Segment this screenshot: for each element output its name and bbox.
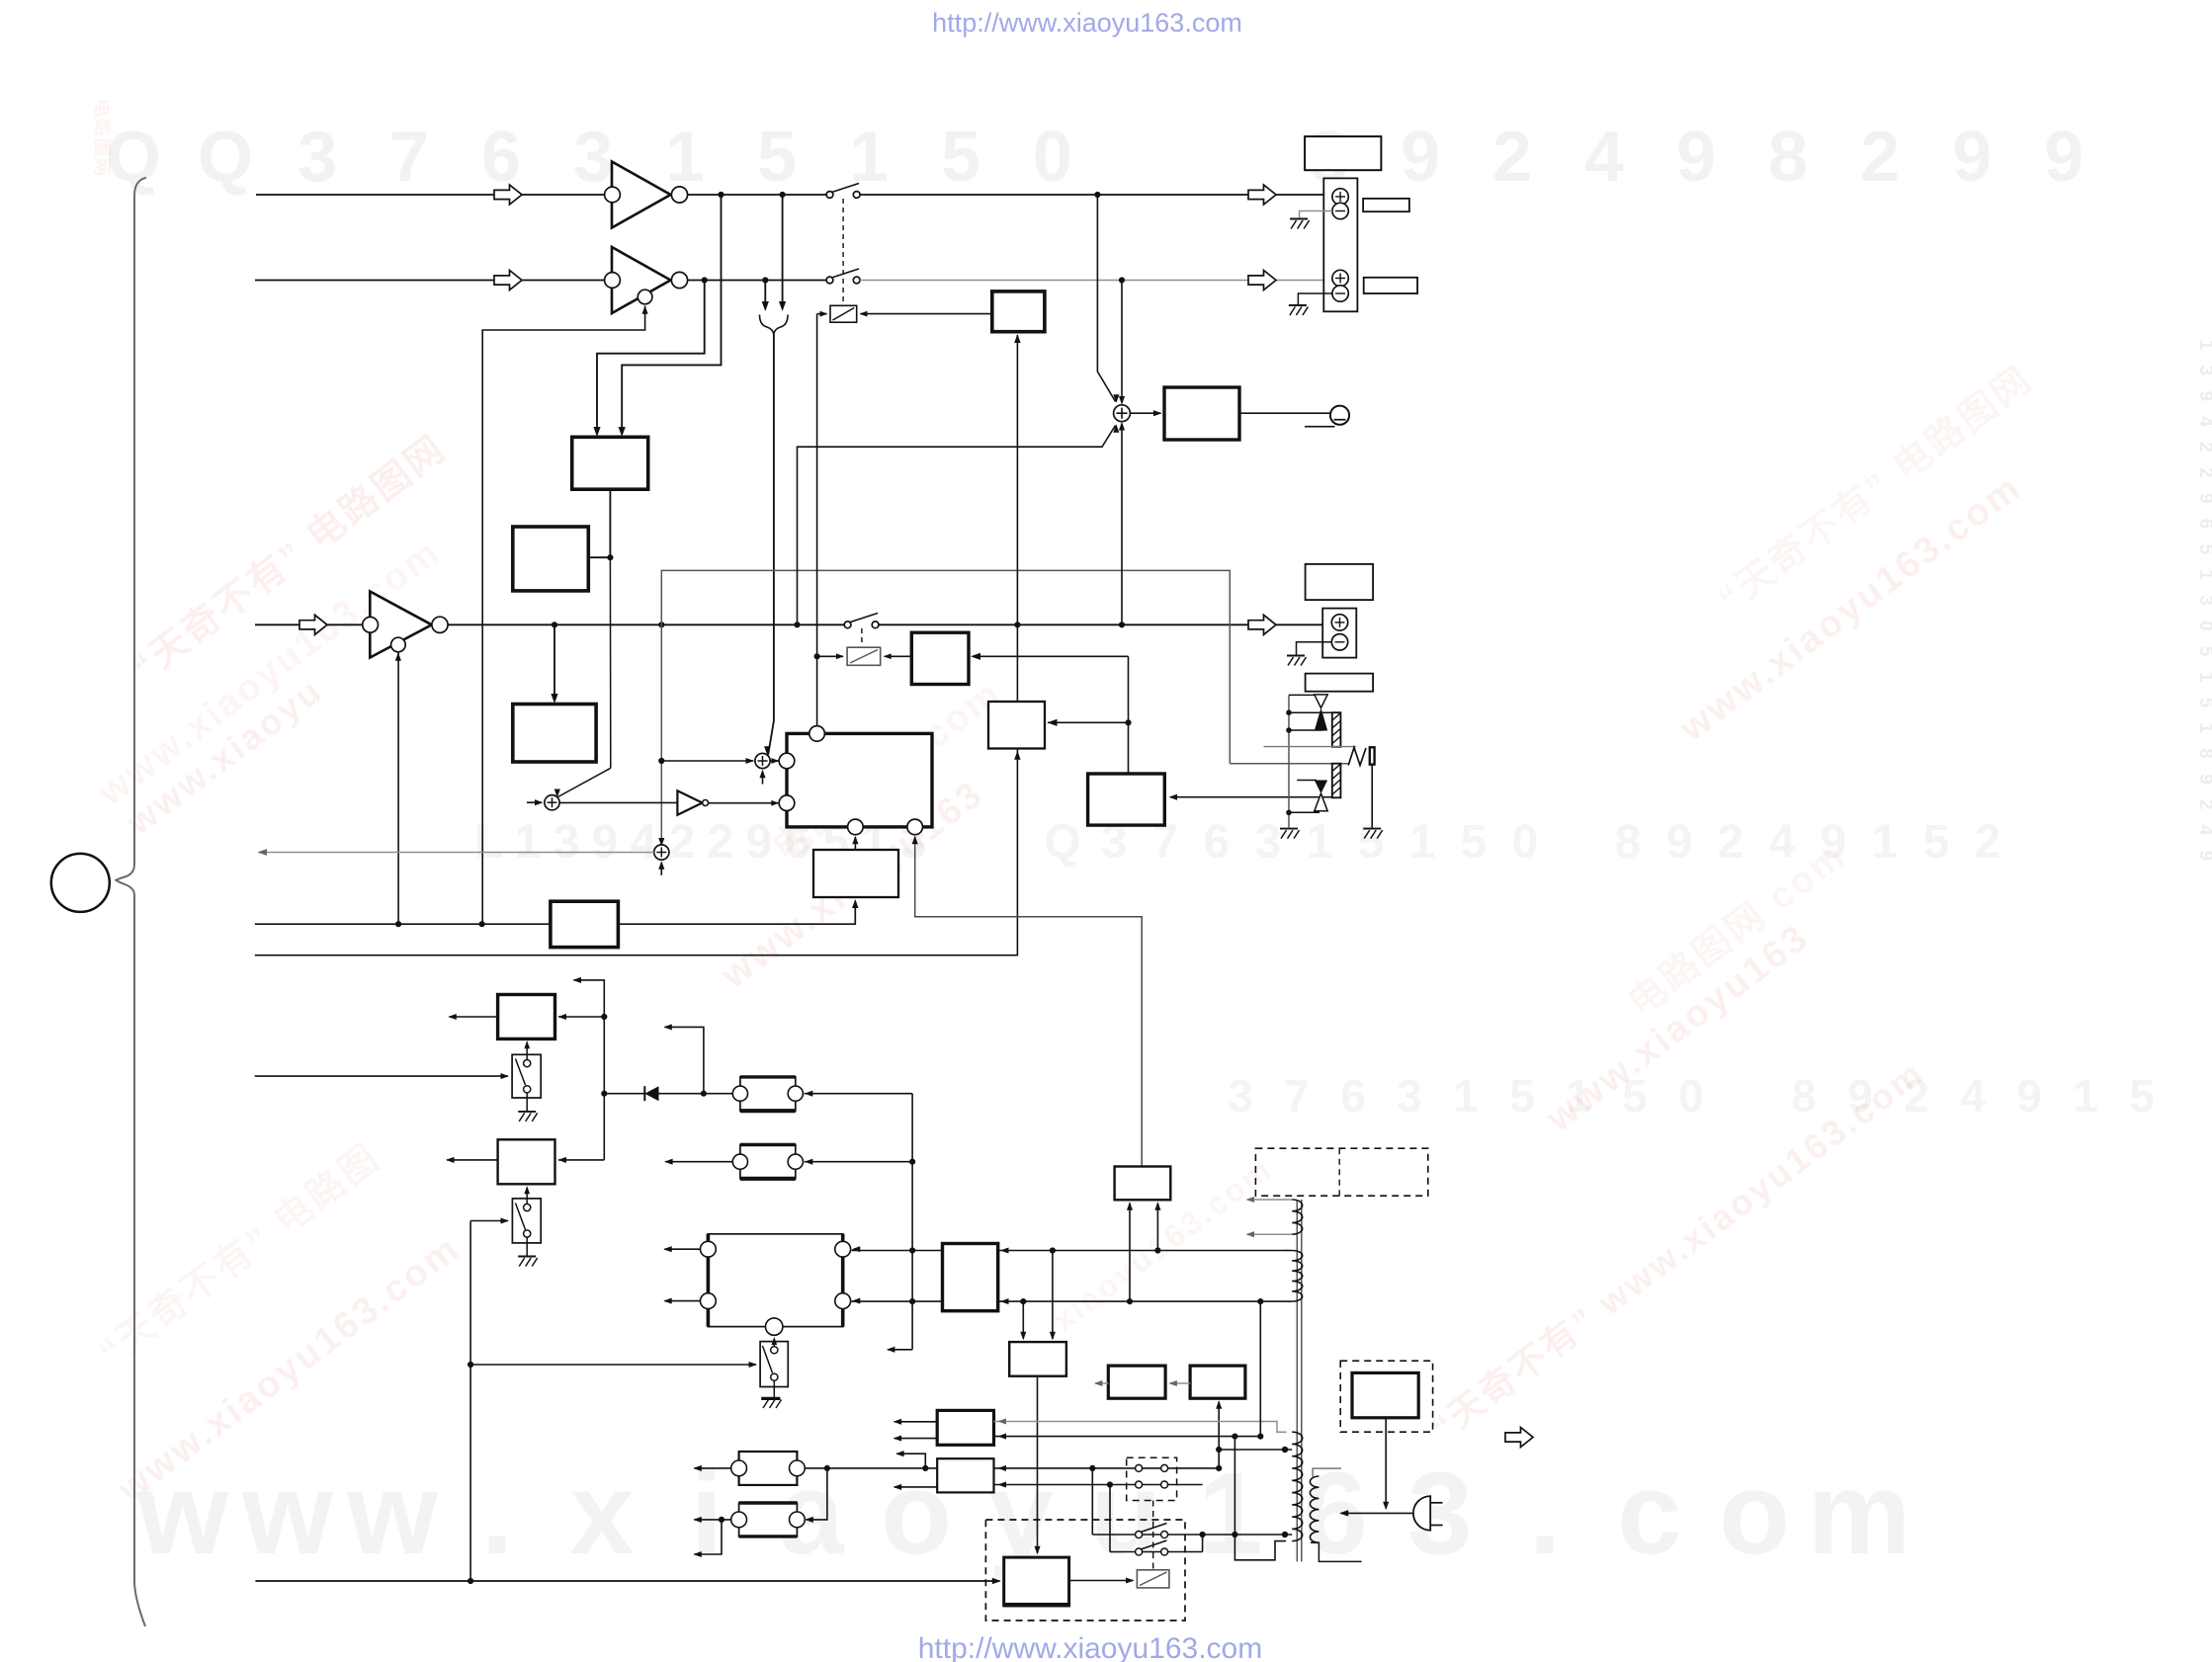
wire V2 riser <box>255 335 1018 956</box>
wire amp3 feedback <box>397 653 399 925</box>
terminal R minus <box>1332 286 1348 301</box>
arrow into FF top-left <box>771 758 779 764</box>
junction line3-hp <box>794 622 800 627</box>
dashed switch box <box>1127 1457 1177 1500</box>
junction P2 feed left <box>1020 1298 1026 1304</box>
lever swA <box>1141 1524 1167 1533</box>
wire P1 feed left <box>1129 1204 1131 1302</box>
arrow Q1 out <box>1094 1380 1103 1386</box>
block arrow speaker R <box>1248 271 1276 291</box>
junction coil-1467 <box>1282 1447 1288 1453</box>
arrow H4 out <box>693 1517 702 1523</box>
tape head H1 block <box>740 1077 796 1111</box>
svg-text:Q: Q <box>1044 816 1080 869</box>
A2 feedback circle <box>638 290 652 304</box>
junction line2-brace <box>762 277 768 283</box>
ground R <box>1289 304 1307 306</box>
contact swB2 <box>1161 1548 1168 1555</box>
arrow into R2 upper <box>998 1465 1007 1471</box>
contact swA2 <box>1161 1532 1168 1538</box>
terminal R plus <box>1332 270 1348 286</box>
A2 output circle <box>671 272 687 288</box>
AC plug <box>1413 1496 1430 1531</box>
block box A <box>572 437 648 489</box>
primary coil <box>1292 1432 1303 1540</box>
S2 plus sign <box>660 848 662 858</box>
wire boxI out <box>450 1016 498 1018</box>
svg-text:9: 9 <box>1676 118 1716 197</box>
arrow into P1 right <box>1154 1202 1160 1210</box>
H1 left circle <box>732 1086 747 1101</box>
junction head1a <box>1286 709 1292 715</box>
arrow SWI to boxI <box>524 1040 530 1048</box>
dashed link RY3-contacts <box>1152 1501 1154 1570</box>
block box R2 <box>937 1458 993 1492</box>
big left parenthesis bracket <box>116 178 146 1626</box>
svg-text:5: 5 <box>1923 816 1950 869</box>
wire line2 to boxA <box>597 281 705 435</box>
arrow into boxK top <box>1000 1247 1009 1253</box>
wire FF2 drop gray <box>915 837 1142 1167</box>
wire R1 in upper (gray) <box>994 1422 1287 1433</box>
switch SWI box <box>512 1054 541 1098</box>
dashed box T <box>1340 1361 1432 1432</box>
wire swrowB <box>1110 1551 1203 1553</box>
wire Q2 feed <box>1218 1402 1220 1468</box>
arrow into SWJ <box>501 1217 510 1223</box>
arrow into P2 left <box>1020 1332 1026 1341</box>
arrow hp diag2 <box>1113 424 1119 433</box>
svg-text:3: 3 <box>1228 1070 1253 1122</box>
svg-text:1: 1 <box>1307 816 1333 869</box>
svg-text:http://www.xiaoyu163.com: http://www.xiaoyu163.com <box>932 8 1242 38</box>
amplifier A2 <box>612 247 671 313</box>
arrow S1 stub <box>759 770 765 779</box>
wire primary tap2 stub <box>1285 1534 1292 1536</box>
A3 output circle <box>432 617 448 632</box>
wire bighead BL out <box>664 1300 700 1302</box>
ground SWJ <box>518 1256 536 1258</box>
wire HP sum to amp <box>1130 412 1160 414</box>
arrow hp bottom <box>1119 422 1125 431</box>
wire damper to ground <box>1371 765 1373 828</box>
secondary coil right <box>1310 1476 1319 1542</box>
block box D <box>551 901 619 947</box>
wire line2 to speaker (gray) <box>860 280 1332 282</box>
plug prong 2 <box>1430 1525 1442 1527</box>
junction rowA-1249 <box>1232 1532 1237 1537</box>
bighead circle BR <box>835 1293 851 1309</box>
wire primary tap1 stub <box>1285 1449 1292 1451</box>
wire P2 drop <box>1037 1376 1039 1553</box>
jack minus sign <box>1334 419 1346 421</box>
svg-text:5: 5 <box>757 118 797 197</box>
junction riser-boxF <box>1125 719 1131 725</box>
arrow into merge left <box>762 301 769 311</box>
arrow into merge right <box>779 301 786 311</box>
block box I <box>498 995 555 1039</box>
block box P1 <box>1115 1167 1171 1201</box>
arrow into boxS top <box>1034 1546 1040 1555</box>
wire R1 out lower <box>894 1438 937 1440</box>
arrow sec-top tap2 <box>1246 1231 1255 1237</box>
wire bighead TL out <box>664 1248 700 1250</box>
wire H1 feed <box>911 1094 913 1350</box>
wire boxG riser <box>1128 656 1130 774</box>
wire SWI ground stem <box>526 1093 528 1111</box>
junction line2-boxA <box>702 277 708 283</box>
block box B <box>513 527 589 591</box>
arrow into H2 <box>805 1159 813 1165</box>
A1 input circle <box>605 187 621 203</box>
terminal R plus sign <box>1339 274 1341 284</box>
wire input line2 <box>255 280 605 282</box>
arrow into FF bottom-2 <box>912 836 918 845</box>
arrow into relay1 right <box>860 311 868 317</box>
svg-text:5: 5 <box>941 118 980 197</box>
wire R2 out lower <box>894 1486 937 1488</box>
ground head-left <box>1280 828 1298 830</box>
junction head2b <box>1286 810 1292 816</box>
ground head-right <box>1363 828 1381 830</box>
svg-text:.: . <box>1529 1449 1562 1579</box>
wire INV1 to flipflop <box>709 802 779 804</box>
wire sec-top tap1 <box>1247 1199 1292 1201</box>
H4 right circle <box>790 1512 806 1528</box>
svg-text:8: 8 <box>1615 816 1642 869</box>
svg-text:4: 4 <box>631 816 657 869</box>
rec head bowtie bottom outline <box>1315 793 1327 811</box>
svg-text:1: 1 <box>1453 1070 1479 1122</box>
junction head1b <box>1286 727 1292 733</box>
H3row L-arrow <box>896 1454 925 1468</box>
svg-text:3: 3 <box>553 816 580 869</box>
RY3 slash <box>1140 1572 1167 1586</box>
wire boxA-junction down <box>609 557 611 768</box>
rec head stub <box>1297 780 1317 782</box>
arrow into relay3 <box>1126 1577 1135 1583</box>
wire line1 after amp <box>688 194 827 196</box>
svg-text:m: m <box>1808 1449 1912 1579</box>
svg-text:9: 9 <box>1952 118 1992 197</box>
block arrow input 1 <box>494 185 522 205</box>
wire into boxI <box>558 1016 604 1018</box>
sum junction S1 <box>755 753 770 768</box>
arrow H3row L <box>895 1451 904 1456</box>
block box 1 (muting) <box>992 291 1045 332</box>
big dashed box power <box>985 1520 1185 1620</box>
S1 plus sign <box>762 756 764 766</box>
wire V1249 <box>1234 1437 1286 1560</box>
arrow into bighead TR <box>852 1246 861 1252</box>
svg-text:0: 0 <box>1512 816 1539 869</box>
wire input line1 <box>256 194 605 196</box>
arrow into R1 lower <box>998 1434 1007 1440</box>
svg-text:3: 3 <box>298 118 337 197</box>
svg-text:1 3 9 4 2 2 9 6 5 1 3 0 5 1 5: 1 3 9 4 2 2 9 6 5 1 3 0 5 1 5 1 8 9 2 4 … <box>2195 340 2212 866</box>
label box R out <box>1364 278 1417 293</box>
arrow S2 stub <box>658 861 664 870</box>
secondary coil 2 <box>1292 1251 1303 1302</box>
block box Q1 <box>1108 1366 1165 1398</box>
junction primary tap1 <box>1282 1447 1288 1453</box>
wire Q1 out <box>1095 1382 1108 1384</box>
arrow R2 out lower <box>893 1484 902 1490</box>
S0 plus sign <box>552 797 553 807</box>
switch SW1 right contact <box>853 192 860 199</box>
wire diagonal into sum1 <box>768 721 774 755</box>
wire bighead top feed <box>852 1250 1286 1252</box>
arrow boxI topline <box>573 977 582 983</box>
arrow H2 out <box>664 1159 673 1165</box>
wire Q2-Q1 link <box>1170 1382 1191 1384</box>
arrow SWJ to boxJ <box>524 1186 530 1194</box>
bighead circle TR <box>835 1241 851 1257</box>
arrow R1 out lower <box>893 1436 902 1442</box>
A3 feedback circle <box>391 637 406 652</box>
wire S1 to flipflop <box>770 760 778 762</box>
AC line <box>1341 1512 1413 1514</box>
SWJ top contact <box>524 1204 531 1210</box>
wire R1 in lower <box>994 1436 1261 1438</box>
lever swB <box>1141 1540 1167 1549</box>
wire relay2 from branch <box>817 655 843 657</box>
arrow sec-top tap1 <box>1246 1197 1255 1203</box>
svg-text:0: 0 <box>1678 1070 1704 1122</box>
relay RY2 <box>847 647 881 665</box>
junction P1 feed left <box>1127 1298 1133 1304</box>
junction rowA-1216 <box>1200 1532 1206 1537</box>
svg-text:9: 9 <box>2016 1070 2042 1122</box>
wire head common vertical <box>1288 695 1290 827</box>
block headphone amp <box>1164 387 1239 440</box>
arrow diode upL <box>663 1024 672 1030</box>
arrow into HP amp <box>1153 410 1162 416</box>
svg-text:x: x <box>569 1449 635 1579</box>
terminal L plus sign <box>1339 192 1341 202</box>
SWK ground bar <box>761 1397 780 1400</box>
wire riser to box4 <box>973 655 1129 657</box>
arrow H3 out <box>693 1465 702 1471</box>
bighead circle TL <box>701 1241 717 1257</box>
arrow into FF bottom-1 <box>852 836 858 845</box>
diode D1 <box>644 1086 658 1101</box>
arrow hp diag1 <box>1113 394 1119 403</box>
svg-text:5: 5 <box>1461 816 1488 869</box>
wire V3 <box>469 1221 471 1582</box>
SWI lever <box>516 1059 526 1086</box>
plug prong 1 <box>1430 1502 1442 1504</box>
wire 3 minus to ground <box>1297 642 1332 655</box>
wire line2 down to merge <box>764 281 766 303</box>
wire secR top (gray) <box>1313 1468 1341 1476</box>
svg-text:0: 0 <box>1033 118 1072 197</box>
svg-text:7: 7 <box>1284 1070 1310 1122</box>
switch SW2 right contact <box>853 277 860 284</box>
contact c2a <box>1136 1481 1143 1488</box>
contact swA1 <box>1136 1532 1143 1538</box>
arrow into box4 <box>971 653 980 660</box>
wire line3 to boxC2 <box>553 624 555 701</box>
wire SWJ ground stem <box>526 1237 528 1255</box>
svg-text:http://www.xiaoyu163.com: http://www.xiaoyu163.com <box>918 1632 1263 1662</box>
wire head to boxG <box>1170 796 1340 798</box>
svg-text:8: 8 <box>1768 118 1808 197</box>
arrow gray return <box>258 849 268 856</box>
svg-text:5: 5 <box>1509 1070 1535 1122</box>
H3 right circle <box>790 1460 806 1476</box>
FF circle left-lower <box>779 795 795 811</box>
speaker3 terminal strip <box>1322 609 1356 658</box>
H1 right circle <box>788 1086 803 1101</box>
junction H3row-x936 <box>922 1465 928 1471</box>
arrow into FF left-lower <box>771 800 779 806</box>
svg-text:5: 5 <box>1358 816 1385 869</box>
block box J <box>498 1139 555 1184</box>
wire S to relay3 <box>1069 1580 1134 1582</box>
rec head bowtie top solid <box>1315 781 1327 794</box>
A2 input circle <box>605 273 621 289</box>
block box Q2 <box>1190 1366 1245 1398</box>
wire H4 out lower <box>695 1520 723 1554</box>
wire H2 feed <box>805 1161 913 1163</box>
junction H2 feed <box>909 1159 915 1165</box>
terminal R minus sign <box>1335 292 1345 294</box>
tape head H4 block <box>739 1503 798 1537</box>
junction coil-1553 <box>1282 1532 1288 1537</box>
junction vI-boxI <box>601 1014 607 1020</box>
relay RY1 <box>830 305 857 322</box>
wire SWK input <box>470 1364 756 1366</box>
wire HP amp to jack <box>1239 412 1330 414</box>
block box G <box>1088 774 1165 825</box>
arrow into H4 <box>805 1517 813 1523</box>
dashed box transformer top <box>1255 1148 1427 1196</box>
H2 left circle <box>732 1154 747 1169</box>
terminal3 minus sign <box>1335 641 1345 643</box>
arrow H4 out lower <box>693 1551 702 1557</box>
arrow into SWK <box>749 1362 758 1368</box>
wire H3 row <box>805 1467 1219 1469</box>
arrow into SWI <box>501 1073 510 1079</box>
junction R1row-1249 <box>1232 1434 1237 1440</box>
amplifier A1 <box>612 162 671 228</box>
wire swrowA <box>1092 1534 1285 1536</box>
wire secR bottom <box>1311 1542 1362 1561</box>
wire H4 out <box>695 1519 731 1521</box>
wire head top arm <box>1289 694 1319 696</box>
svg-text:1: 1 <box>1409 816 1436 869</box>
wire gray route top <box>661 570 1230 844</box>
headphone jack circle <box>1330 406 1349 425</box>
wire line1 to hp-sum <box>1097 195 1115 402</box>
junction bighead top feed <box>909 1247 915 1253</box>
svg-text:L: L <box>474 816 503 869</box>
wire line1 to boxA <box>622 195 721 434</box>
wire line3 to speaker <box>879 623 1330 625</box>
svg-text:2: 2 <box>1492 118 1532 197</box>
svg-text:Q: Q <box>106 118 161 197</box>
svg-text:w: w <box>241 1449 334 1579</box>
terminal L minus <box>1332 203 1348 218</box>
switch SW1 lever <box>832 184 860 193</box>
arrow into R2 lower <box>998 1481 1007 1487</box>
switch SW2 left contact <box>826 277 833 284</box>
switch SW3 right contact <box>872 622 879 628</box>
junction primary tap2 <box>1282 1532 1288 1537</box>
tape head H2 block <box>740 1145 796 1179</box>
arrow boxI out <box>448 1014 457 1020</box>
arrow AC line <box>1339 1510 1348 1516</box>
svg-text:5: 5 <box>2129 1070 2155 1122</box>
wire diagonal into sum0 <box>558 768 611 796</box>
terminal L minus sign <box>1335 210 1345 212</box>
block arrow input 3 <box>299 615 327 634</box>
svg-text:8: 8 <box>1791 1070 1817 1122</box>
junction R2lower-1123 <box>1107 1481 1113 1487</box>
wire boxC to FF <box>854 837 856 850</box>
junction V3-bottom <box>468 1578 473 1584</box>
arrow hp top <box>1119 396 1125 405</box>
FF circle bottom-2 <box>907 819 923 835</box>
svg-text:9: 9 <box>592 816 619 869</box>
SWJ bottom contact <box>524 1230 531 1237</box>
svg-text:3: 3 <box>573 118 613 197</box>
S2 stub below <box>660 863 662 875</box>
wire line3 after amp <box>448 623 844 625</box>
wire head2b <box>1289 811 1319 813</box>
junction line2-headphone <box>1119 277 1125 283</box>
wire R minus to ground <box>1298 293 1332 304</box>
wire line2 after amp <box>688 280 827 282</box>
block arrow input 2 <box>494 271 522 291</box>
arrow into boxF bottom <box>1014 751 1020 760</box>
head spring <box>1348 748 1366 766</box>
arrow SWK up <box>771 1337 777 1345</box>
junction P1 feed right <box>1154 1247 1160 1253</box>
svg-text:3: 3 <box>1255 816 1282 869</box>
wire diode row <box>604 1093 732 1095</box>
box S bottom emphasis <box>1003 1603 1070 1608</box>
arrow into A2 feedback <box>642 305 648 314</box>
wire H4 feed <box>807 1468 827 1520</box>
switch SWJ box <box>512 1199 541 1243</box>
junction V3-SWK <box>468 1362 473 1368</box>
svg-text:1: 1 <box>665 118 705 197</box>
junction bighead bottom feed <box>909 1298 915 1304</box>
wire line2 to hp-sum <box>1121 281 1123 404</box>
block box R1 <box>937 1410 993 1445</box>
block box P2 <box>1009 1342 1066 1376</box>
ground L <box>1290 218 1308 220</box>
wire line1 down to merge <box>782 195 784 303</box>
SWI bottom contact <box>524 1086 531 1093</box>
wire SWJ input <box>470 1220 508 1222</box>
wire SWI to boxI <box>526 1042 528 1060</box>
head gap line upper <box>1264 746 1356 748</box>
junction boxA-boxB <box>607 554 613 560</box>
wire H3 out <box>695 1467 731 1469</box>
SWK ground hatches <box>763 1400 769 1409</box>
wire bus1 <box>255 901 856 925</box>
arrow V923 hook <box>887 1347 895 1353</box>
wire head1a <box>1289 711 1332 713</box>
tape head H3 block <box>739 1452 798 1485</box>
junction diode-upL <box>701 1091 707 1097</box>
arrow into P2 right <box>1050 1332 1056 1341</box>
wire relay1 feed vertical <box>816 314 818 726</box>
ground spk3 <box>1287 655 1305 657</box>
